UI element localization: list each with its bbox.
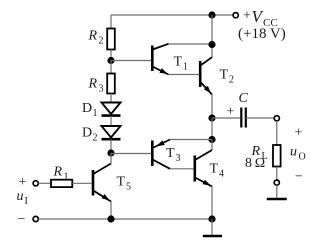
resistor R1: [51, 180, 72, 187]
wire T3 emitter to node E: [170, 139, 212, 141]
label D2: [82, 126, 98, 144]
svg-text:R: R: [53, 165, 63, 180]
label input minus sign: [18, 212, 26, 227]
label T2: [220, 68, 235, 86]
label output plus sign: [295, 126, 303, 141]
svg-text:8 Ω: 8 Ω: [245, 156, 265, 171]
label 8 ohm: [245, 156, 265, 171]
capacitor C: [241, 108, 246, 128]
wire T3 collector to T4 base: [170, 168, 194, 170]
resistor R3: [107, 74, 115, 94]
wire T5 emitter down to bottom rail: [110, 202, 112, 220]
label T1: [174, 55, 189, 73]
label T3: [166, 146, 181, 164]
svg-text:R: R: [88, 29, 98, 44]
label (+18 V): [238, 26, 286, 42]
label RL: [251, 144, 268, 162]
node B (D2/T3 base/T5 collector junction): [107, 149, 114, 156]
svg-text:2: 2: [93, 133, 98, 144]
diode D1: [102, 103, 121, 116]
wire RL to lower terminal: [276, 167, 278, 181]
wire node D to node E: [211, 118, 213, 140]
svg-text:T: T: [117, 175, 126, 190]
wire T2 emitter down to node D: [211, 94, 213, 118]
diode D2: [102, 126, 121, 139]
svg-text:O: O: [299, 152, 306, 163]
wire T1 emitter to T2 base: [169, 74, 200, 76]
label uO: [290, 145, 306, 163]
svg-text:(+18 V): (+18 V): [238, 26, 286, 42]
svg-text:D: D: [82, 101, 92, 116]
svg-text:2: 2: [229, 75, 234, 86]
node junction on top rail: [208, 11, 215, 18]
svg-text:u: u: [290, 145, 297, 160]
label output minus sign: [295, 170, 303, 185]
label capacitor plus polarity: [227, 105, 235, 120]
label +VCC: [243, 7, 278, 29]
transistor T4: [195, 150, 212, 187]
transistor T2: [200, 57, 212, 94]
svg-text:3: 3: [176, 153, 181, 164]
label R2: [88, 29, 104, 47]
node F (T5 emitter on bottom rail): [107, 215, 114, 222]
svg-text:+: +: [243, 9, 251, 24]
wire bottom rail: [39, 218, 213, 220]
node D (capacitor tap junction): [208, 114, 215, 121]
svg-text:T: T: [174, 55, 183, 70]
svg-text:−: −: [295, 170, 303, 185]
wire top rail VCC: [111, 14, 233, 16]
svg-text:+: +: [227, 105, 235, 120]
wire R2 to node A: [110, 50, 112, 61]
svg-text:4: 4: [219, 169, 224, 180]
svg-text:I: I: [25, 196, 28, 207]
resistor RL: [273, 145, 281, 167]
wire R3 to D1: [110, 94, 112, 103]
wire D2 to node B: [110, 139, 112, 153]
terminal input plus: [33, 181, 38, 186]
svg-text:C: C: [239, 91, 249, 106]
wire node B to T3 base: [111, 153, 151, 155]
label R3: [88, 77, 104, 95]
transistor T1: [152, 44, 168, 75]
svg-text:1: 1: [183, 62, 188, 73]
svg-text:+: +: [19, 175, 27, 190]
svg-text:T: T: [210, 162, 219, 177]
node A (R2/R3/T1 base junction): [107, 57, 114, 64]
wire capacitor to output terminal: [246, 117, 274, 119]
terminal output top: [274, 116, 279, 121]
node G (bottom rail / ground junction): [208, 215, 215, 222]
node C (T1 collector / T2 collector junction): [208, 41, 215, 48]
svg-text:2: 2: [99, 36, 104, 47]
label C: [239, 91, 249, 106]
svg-text:1: 1: [64, 172, 69, 183]
svg-text:D: D: [82, 126, 92, 141]
wire VCC rail down to node C: [211, 15, 213, 58]
terminal +VCC: [233, 13, 238, 18]
label D1: [82, 101, 98, 119]
svg-text:3: 3: [99, 84, 104, 95]
svg-text:R: R: [88, 77, 98, 92]
ground (main): [203, 219, 222, 236]
transistor T3: [152, 140, 170, 169]
wire R2 top: [110, 15, 112, 29]
node E (T3 emitter junction): [208, 136, 215, 143]
terminal input minus: [33, 216, 38, 221]
label R1: [53, 165, 69, 183]
wire T5 collector up to node B: [110, 153, 112, 164]
wire T4 emitter down to bottom rail: [211, 187, 213, 220]
label uI: [17, 189, 28, 207]
svg-text:T: T: [220, 68, 229, 83]
wire T1 collector to node C: [169, 43, 212, 45]
wire node A to T1 base: [111, 60, 151, 62]
wire node A to R3: [110, 61, 112, 74]
svg-text:1: 1: [93, 108, 98, 119]
ground (load): [267, 185, 287, 199]
wire input terminal to R1: [39, 182, 52, 184]
terminal output bottom: [274, 180, 279, 185]
svg-text:−: −: [18, 212, 26, 227]
svg-text:+: +: [295, 126, 303, 141]
transistor T5: [93, 164, 111, 202]
wire D1 to D2: [110, 116, 112, 126]
resistor R2: [107, 29, 115, 50]
label input plus sign: [19, 175, 27, 190]
wire R1 to T5 base: [72, 182, 91, 184]
svg-text:T: T: [166, 146, 175, 161]
label T4: [210, 162, 225, 180]
wire node E down to T4 collector: [211, 140, 213, 151]
svg-text:u: u: [17, 189, 24, 204]
wire output terminal to RL: [276, 121, 278, 145]
svg-text:5: 5: [126, 182, 131, 193]
label T5: [117, 175, 132, 193]
wire node D to capacitor: [212, 117, 240, 119]
